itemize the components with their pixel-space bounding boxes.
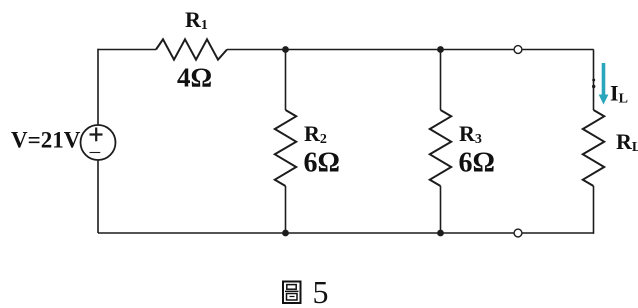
node dot top R3 (437, 46, 444, 53)
resistor R1 (156, 39, 227, 59)
svg-text:V=21V: V=21V (11, 128, 81, 153)
resistor R2 (275, 110, 296, 186)
svg-text:5: 5 (313, 274, 329, 308)
wire left vertical upper (97, 49, 99, 126)
wire R2 branch upper (285, 50, 287, 111)
wire left vertical lower (97, 160, 99, 233)
wire tick marks on right vertical (592, 79, 595, 82)
svg-text:R2: R2 (304, 121, 327, 147)
plus sign (90, 128, 103, 142)
voltage source V (81, 125, 116, 160)
svg-text:R1: R1 (185, 7, 208, 33)
wire top left segment (98, 49, 156, 51)
wire bottom (98, 232, 594, 234)
node dot bottom R3 (437, 230, 444, 237)
resistor R3 (430, 110, 451, 186)
open terminal bottom (514, 229, 522, 237)
wire top right segment (227, 49, 594, 51)
svg-text:R3: R3 (459, 121, 482, 147)
current arrow IL (599, 63, 609, 105)
svg-text:6Ω: 6Ω (459, 148, 495, 179)
wire R3 branch lower (440, 186, 442, 233)
minus sign (90, 152, 101, 154)
wire R2 branch lower (285, 186, 287, 233)
node dot bottom R2 (282, 230, 289, 237)
open terminal top (514, 46, 522, 54)
wire right vertical lower (593, 186, 595, 234)
svg-text:RL: RL (616, 129, 638, 155)
caption figure glyph (283, 282, 301, 304)
wire R3 branch upper (440, 50, 442, 111)
wire right vertical upper (593, 50, 595, 111)
svg-text:IL: IL (610, 81, 628, 107)
resistor RL (583, 110, 604, 186)
node dot top R2 (282, 46, 289, 53)
svg-text:4Ω: 4Ω (177, 63, 212, 93)
svg-text:6Ω: 6Ω (304, 148, 340, 179)
